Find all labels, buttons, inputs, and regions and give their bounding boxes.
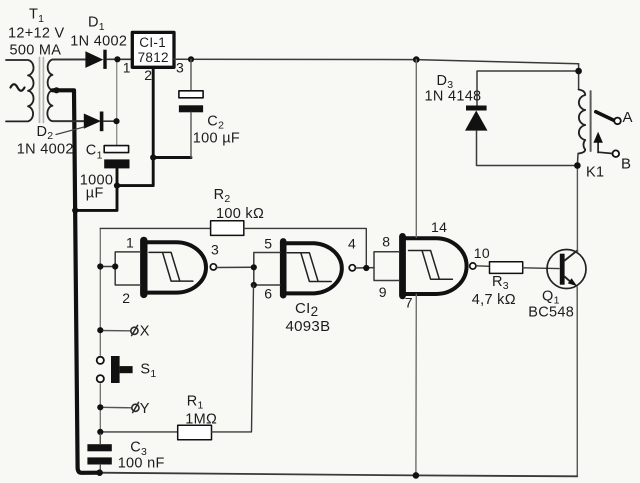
switch S1 [97,356,133,383]
gate 2 input loop (pins 5,6) [254,253,280,286]
svg-text:4,7 kΩ: 4,7 kΩ [472,292,516,308]
svg-text:2: 2 [122,290,130,306]
svg-text:4093B: 4093B [286,318,331,335]
wire: left oscillator rail [99,228,101,355]
wire: secondary center tap to ground rail [53,90,100,473]
svg-text:A: A [623,109,633,126]
node: junction on thick ground rail [72,207,78,213]
svg-text:Y: Y [140,401,150,417]
wire: CI-1 pin 2 to ground [117,67,153,185]
NAND gate 1 (CI2a) [144,240,217,294]
wire: D1/D2 cathodes down to C1 [116,59,118,145]
transformer T1 core [39,58,41,123]
svg-text:X: X [140,324,150,340]
svg-text:CI-1: CI-1 [139,35,166,50]
capacitor C1 (1000uF) [104,146,129,169]
capacitor C3 (100nF) [87,434,111,473]
node: Y junction [97,404,103,410]
svg-text:5: 5 [264,235,272,251]
svg-text:1MΩ: 1MΩ [185,412,217,428]
resistor R1 [100,285,253,440]
svg-text:3: 3 [176,60,184,76]
wire: rail to gate 1 inputs [100,266,115,268]
svg-text:100 µF: 100 µF [193,131,240,147]
wire: ground node to left rail [75,186,117,211]
svg-text:C1: C1 [86,142,103,161]
svg-text:1N 4148: 1N 4148 [425,88,482,104]
svg-text:100 nF: 100 nF [118,456,165,472]
transistor Q1 [547,250,586,289]
wire: gate2 output to gate3 input [356,267,374,269]
wire: Q1 collector to relay [576,166,578,252]
NAND gate 3 (CI2c) [403,236,476,295]
wire: +12V to CI2 pin 14 [415,60,417,238]
wire: ground branch to C2 negative [153,156,191,159]
node: X junction [97,327,103,333]
relay contact B terminal [613,150,620,157]
svg-text:9: 9 [379,284,387,300]
connector Y [100,402,139,412]
svg-text:7: 7 [405,295,413,311]
node: gate2 input junction [251,264,257,270]
diode D2 [53,112,117,132]
node: D1 cathode junction [114,56,120,62]
svg-text:100 kΩ: 100 kΩ [216,206,264,222]
svg-text:T1: T1 [29,7,44,25]
svg-text:1: 1 [123,60,131,76]
wire: 0V bottom rail [100,473,578,477]
svg-text:1N 4002: 1N 4002 [17,141,74,157]
svg-text:10: 10 [474,245,490,261]
capacitor C2 (100uF) [179,59,203,157]
svg-text:R2: R2 [214,187,231,205]
relay core bar [590,91,592,151]
svg-text:R1: R1 [187,393,204,411]
svg-text:R3: R3 [492,274,509,292]
svg-text:14: 14 [431,219,447,235]
svg-text:6: 6 [264,285,272,301]
node: CI2 pin7 bottom rail junction [413,472,420,479]
diode D1 [53,50,133,69]
svg-text:K1: K1 [586,165,604,181]
svg-text:7812: 7812 [138,50,169,65]
node: D2 cathode junction [113,118,119,124]
gate 1 input loop (pins 1,2) [115,252,140,285]
node: relay top junction [575,68,582,75]
svg-text:3: 3 [211,241,219,257]
resistor R3 [476,262,559,274]
wire: C1 negative to ground node [116,168,119,186]
AC source ~ symbol [11,84,25,91]
diode D3 [465,71,579,166]
svg-text:8: 8 [382,233,390,249]
svg-text:1N 4002: 1N 4002 [70,34,127,50]
node: R1 / rail junction [97,429,103,435]
svg-text:S1: S1 [140,362,156,381]
voltage regulator CI-1 7812 [132,32,174,67]
wire: Q1 emitter to 0V rail [576,287,578,476]
relay contact A arm [596,112,614,121]
svg-text:µF: µF [86,186,104,202]
wire: gate1 output to gate2 input [217,266,254,268]
transformer T1 secondary winding [47,60,85,122]
node: rail junction [97,263,103,269]
node: pin 3 output junction [188,56,194,62]
wire: CI2 pin 7 to 0V rail [415,294,417,475]
relay contact A terminal [614,118,621,125]
NAND gate 2 (CI2b) [283,241,355,295]
wire: CI-1 output rail (+12V) [174,59,579,64]
gate 3 input loop (pins 8,9) [374,252,399,281]
node: +12V rail branch to CI2 supply [413,56,420,63]
svg-text:500 MA: 500 MA [10,43,62,59]
wire: arrow to contact B terminal [598,152,612,153]
node: pin2/C2 ground junction [150,154,156,160]
svg-text:C2: C2 [207,114,224,132]
svg-text:CI2: CI2 [295,300,318,319]
svg-text:1: 1 [126,235,134,251]
node: gate1 input junction [112,263,118,269]
svg-text:2: 2 [144,67,152,83]
svg-text:12+12 V: 12+12 V [8,26,65,42]
node: C3 bottom rail junction [96,469,103,476]
D2 label pointer line [56,127,84,135]
svg-text:BC548: BC548 [528,304,574,320]
svg-text:D2: D2 [37,124,54,142]
node: relay bottom junction [574,162,581,169]
relay armature arrow [597,142,599,153]
transformer T1 primary winding [6,60,34,121]
svg-text:B: B [621,156,631,173]
svg-text:4: 4 [348,236,356,252]
node: gate2 output / R2 junction [363,265,369,271]
svg-text:D1: D1 [88,15,105,33]
node: gate2 pin6 / R1 junction [251,282,257,288]
relay K1 coil [577,64,585,166]
node: C1 ground junction [114,183,120,189]
resistor R2 [100,221,366,268]
connector X [100,325,138,335]
node: center tap junction [53,87,59,93]
